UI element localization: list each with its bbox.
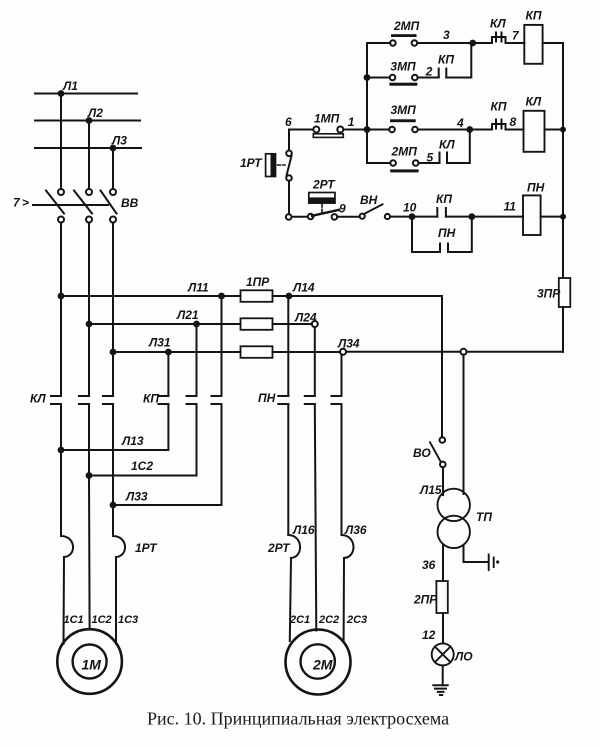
wire phase1 to heater: [60, 450, 62, 536]
node L33: [110, 502, 117, 509]
right rail: [562, 43, 564, 278]
node L31: [110, 349, 117, 356]
wire row L11: [61, 295, 241, 297]
wire row A to node3: [417, 42, 473, 44]
svg-text:2С3: 2С3: [346, 614, 367, 626]
svg-text:2ПР: 2ПР: [413, 593, 438, 607]
svg-text:КП: КП: [438, 53, 454, 67]
thermal contact 2RT blade: [312, 210, 339, 216]
node L31-KP1: [165, 349, 172, 356]
wire PN3 lower: [341, 404, 343, 535]
left rail to row E: [288, 181, 290, 214]
button 3MP row C bridge: [390, 119, 416, 122]
heater 1RT element a: [61, 536, 73, 557]
right rail lower: [562, 307, 564, 352]
wire to motor 2M b: [343, 558, 345, 641]
break contact KP ticks: [496, 120, 502, 129]
chassis ground dot: [496, 560, 499, 563]
contact KP-3: [212, 396, 222, 404]
button 2MP row D bridge: [390, 169, 418, 172]
switch BB pole2 bottom terminal: [86, 217, 92, 223]
svg-text:КЛ: КЛ: [30, 392, 46, 406]
svg-text:Л11: Л11: [187, 281, 209, 295]
wire row E top path: [412, 216, 437, 218]
wire L34 to right rail: [346, 351, 461, 353]
switch BB pole1 top terminal: [58, 189, 64, 195]
svg-text:2РТ: 2РТ: [312, 178, 336, 192]
phase line L2: [35, 120, 140, 122]
svg-text:3: 3: [443, 28, 450, 42]
wire row E c: [390, 216, 412, 218]
button 2MP row D left terminal: [390, 160, 396, 166]
button 3MP row C left terminal: [389, 127, 395, 133]
wire to motor 1M b: [115, 557, 117, 644]
phase line L1: [35, 93, 137, 95]
svg-text:12: 12: [422, 628, 436, 642]
break contact KP rowC: [470, 124, 524, 130]
switch BB pole3 blade: [101, 191, 117, 214]
switch VN blade: [365, 204, 383, 213]
button 1MP right terminal: [337, 127, 343, 133]
wire node11 to coil: [472, 216, 523, 218]
wire L34 tap down to transformer: [463, 355, 465, 494]
wire to motor 1M a: [63, 557, 66, 644]
node L11: [58, 293, 65, 300]
svg-text:ЛО: ЛО: [454, 650, 473, 664]
node on L1: [58, 90, 65, 97]
svg-text:1РТ: 1РТ: [240, 156, 263, 170]
wire L2 down to switch: [88, 121, 90, 190]
coil PN: [523, 195, 541, 235]
svg-text:2М: 2М: [312, 657, 333, 673]
svg-text:>: >: [22, 196, 29, 210]
wire row E top path right: [446, 216, 472, 218]
svg-text:7: 7: [512, 29, 520, 43]
wire L14 down to VO: [441, 296, 443, 437]
svg-text:Рис. 10. Принципиальная электр: Рис. 10. Принципиальная электросхема: [147, 709, 449, 729]
link 1С2: [89, 404, 197, 476]
wire row B right: [446, 43, 471, 78]
wire lamp to ground: [442, 665, 444, 685]
switch VN right terminal: [385, 214, 390, 219]
phase line L3: [35, 147, 141, 149]
svg-text:Л13: Л13: [121, 434, 144, 448]
button 2MP row A bridge: [391, 34, 417, 37]
motor 1M inner: [73, 645, 107, 679]
wire fuse to lamp: [442, 613, 444, 644]
thermal contact 2RT left terminal: [308, 214, 314, 220]
fuse 1PR-1: [241, 290, 273, 302]
wire row B left: [367, 77, 390, 79]
wire L1 down to switch: [60, 94, 62, 190]
svg-text:10: 10: [403, 201, 417, 215]
branch riser left: [366, 43, 368, 163]
node on L3: [110, 145, 117, 152]
contact KP-1: [158, 396, 168, 404]
wire row D right: [447, 130, 470, 164]
wire pole1 down: [60, 223, 62, 396]
terminal circle L24: [312, 321, 318, 327]
node 4: [466, 126, 473, 133]
node rail rowE: [560, 214, 566, 220]
thermal contact 2RT right terminal: [332, 214, 338, 220]
break contact KL ticks: [496, 33, 502, 42]
node rowB-left: [364, 74, 371, 81]
svg-text:Л33: Л33: [125, 490, 148, 504]
node on L2: [86, 117, 93, 124]
node L13: [58, 447, 65, 454]
wire coil KL to rail: [545, 129, 564, 131]
heater 2RT element a: [288, 535, 300, 558]
wire row E a: [292, 216, 308, 218]
node 11: [468, 213, 475, 220]
svg-text:1МП: 1МП: [314, 112, 340, 126]
wire L3 down to switch: [112, 148, 114, 189]
node L14: [286, 293, 293, 300]
node 3: [469, 40, 476, 47]
wire row D left: [367, 162, 390, 164]
contact KP-2: [187, 396, 197, 404]
fuse 1PR-3: [241, 346, 273, 358]
svg-text:ВО: ВО: [413, 446, 431, 460]
svg-text:Л36: Л36: [344, 523, 367, 537]
lamp LO cross: [435, 647, 451, 663]
button 2MP row A left terminal: [390, 40, 396, 46]
wire KL3 lower: [112, 404, 114, 505]
wire row C to node4: [418, 129, 470, 131]
wire PN1 lower: [287, 404, 289, 535]
svg-text:Л21: Л21: [176, 308, 199, 322]
wire VO to transformer: [442, 467, 444, 495]
contact KL-3: [103, 396, 113, 404]
wire phase3 to heater: [112, 505, 114, 536]
svg-text:ПН: ПН: [258, 391, 276, 405]
link Л13: [61, 404, 168, 450]
wire coil KP to rail: [543, 42, 563, 44]
switch BB pole1 bottom terminal: [58, 217, 64, 223]
heater 1RT box fill: [271, 154, 276, 177]
wire L34 row: [273, 351, 341, 353]
switch VO top terminal: [440, 437, 446, 443]
svg-text:ТП: ТП: [476, 510, 492, 524]
node 1: [364, 126, 371, 133]
svg-text:2: 2: [425, 65, 433, 79]
aux contact KL rowD: [440, 153, 448, 164]
button 3MP row B bridge: [389, 83, 417, 86]
svg-text:КЛ: КЛ: [439, 138, 455, 152]
contactor KP upper wires: [168, 296, 221, 396]
svg-text:КП: КП: [526, 9, 542, 23]
contact KL-2: [79, 396, 89, 404]
wire coil PN to rail: [541, 216, 563, 218]
loop PN lower path: [412, 217, 472, 252]
transformer TP primary: [438, 489, 470, 521]
chassis ground symbol: [489, 555, 494, 571]
motor 1M outer: [57, 629, 122, 694]
lamp LO circle: [432, 643, 454, 665]
svg-text:Л34: Л34: [337, 337, 360, 351]
svg-text:4: 4: [456, 116, 464, 130]
svg-text:2С1: 2С1: [289, 614, 310, 626]
svg-text:1С2: 1С2: [131, 459, 153, 473]
contact PN-1: [278, 396, 288, 404]
svg-text:КЛ: КЛ: [526, 95, 542, 109]
svg-text:1ПР: 1ПР: [246, 275, 270, 289]
svg-text:КП: КП: [491, 100, 507, 114]
svg-text:ВН: ВН: [360, 193, 378, 207]
svg-text:1РТ: 1РТ: [135, 541, 158, 555]
svg-text:6: 6: [285, 115, 292, 129]
button 1MP bridge: [313, 134, 343, 138]
wire row E b: [337, 216, 360, 218]
switch VO bottom terminal: [440, 462, 446, 468]
dash link 1RT: [278, 164, 286, 166]
wire secondary right to ground: [464, 546, 488, 563]
wire row B mid: [418, 77, 439, 79]
button 2MP row D right terminal: [413, 160, 419, 166]
fuse 2PR: [436, 581, 447, 613]
node rail rowC: [560, 127, 566, 133]
svg-text:2МП: 2МП: [391, 145, 418, 159]
wire L14 row: [273, 295, 443, 297]
corner terminal circle row E: [286, 214, 292, 220]
terminal circle on L34 at transformer tap: [461, 349, 467, 355]
wire row A left: [367, 42, 390, 44]
svg-text:КЛ: КЛ: [490, 17, 506, 31]
button 3MP row B right terminal: [412, 75, 418, 81]
svg-text:1: 1: [348, 115, 355, 129]
thermal contact 1RT bottom terminal: [286, 175, 292, 181]
contact PN-3: [332, 396, 342, 404]
svg-text:Л14: Л14: [292, 281, 315, 295]
terminal circle L34: [340, 349, 346, 355]
svg-text:Л31: Л31: [148, 336, 171, 350]
svg-text:КП: КП: [436, 192, 452, 206]
contactor PN upper wires: [288, 296, 341, 396]
heater 2RT box fill: [309, 197, 335, 203]
svg-text:1С1: 1С1: [64, 614, 84, 626]
wire 1MP to node1: [343, 129, 367, 131]
aux contact PN rowE: [440, 244, 448, 253]
wire row C node1 to 3MP: [367, 129, 389, 131]
wire to motor 2M a: [290, 558, 291, 641]
earth ground symbol: [433, 685, 447, 695]
svg-text:2С2: 2С2: [318, 614, 339, 626]
wire row L31: [113, 351, 241, 353]
heater 1RT box: [266, 154, 276, 177]
aux contact KP rowE: [437, 208, 446, 217]
svg-text:1С2: 1С2: [92, 614, 112, 626]
switch BB pole2 blade: [74, 191, 92, 214]
coil KL: [524, 111, 545, 152]
button 3MP row B left terminal: [390, 75, 396, 81]
svg-text:7: 7: [13, 196, 21, 210]
motor 2M inner: [301, 644, 335, 678]
wire row D mid: [419, 162, 440, 164]
wire pole2 down: [88, 223, 90, 396]
aux contact KP rowB: [439, 69, 447, 78]
coil KP: [524, 25, 542, 64]
heater 2RT element b: [342, 535, 354, 558]
switch VN left terminal: [360, 214, 365, 219]
svg-text:3МП: 3МП: [391, 103, 417, 117]
dash link 2RT: [321, 205, 323, 213]
switch BB tie bar: [33, 204, 108, 206]
wire L24 row: [273, 323, 312, 325]
contact PN-2: [305, 396, 315, 404]
svg-text:Л16: Л16: [292, 523, 315, 537]
wire secondary left down: [442, 545, 444, 581]
node 1C2: [86, 472, 93, 479]
svg-text:Л15: Л15: [419, 483, 442, 497]
switch VO blade: [430, 442, 440, 461]
switch BB pole3 top terminal: [110, 189, 116, 195]
fuse 3PR: [559, 278, 571, 307]
svg-text:ПН: ПН: [438, 226, 456, 240]
svg-text:36: 36: [422, 558, 436, 572]
wire L34 rail end: [467, 351, 564, 353]
svg-text:8: 8: [510, 115, 517, 129]
switch BB pole2 top terminal: [86, 189, 92, 195]
button 3MP row C right terminal: [412, 127, 418, 133]
wire pole3 down: [112, 223, 114, 396]
contact KL-1: [51, 396, 61, 404]
wire PN2 lower: [315, 404, 317, 631]
switch BB pole3 bottom terminal: [110, 217, 116, 223]
node L11-KP3: [218, 293, 225, 300]
node L21-KP2: [193, 321, 200, 328]
link Л33: [113, 404, 222, 505]
wire row C left: [289, 129, 313, 131]
switch BB pole1 blade: [46, 191, 64, 214]
svg-text:КП: КП: [143, 392, 159, 406]
svg-text:11: 11: [504, 200, 517, 214]
svg-text:2МП: 2МП: [393, 19, 420, 33]
left rail down from 6: [288, 130, 290, 151]
node L21: [86, 321, 93, 328]
button 2MP row A right terminal: [412, 40, 418, 46]
heater 2RT box: [309, 193, 335, 204]
svg-text:Л1: Л1: [62, 79, 78, 93]
thermal contact 1RT top terminal: [286, 151, 292, 157]
thermal contact 1RT blade: [287, 156, 292, 176]
svg-text:3МП: 3МП: [390, 60, 416, 74]
button 1MP left terminal: [313, 127, 319, 133]
transformer TP secondary: [438, 516, 470, 548]
motor 2M outer: [286, 630, 351, 695]
node 10: [409, 213, 416, 220]
svg-text:2РТ: 2РТ: [267, 541, 291, 555]
svg-text:ВВ: ВВ: [121, 196, 139, 210]
wire phase2 to motor: [88, 476, 91, 630]
svg-text:3ПР: 3ПР: [537, 287, 561, 301]
svg-text:9: 9: [339, 202, 346, 216]
svg-text:1М: 1М: [82, 657, 102, 673]
fuse 1PR-2: [241, 318, 273, 330]
svg-text:ПН: ПН: [527, 181, 545, 195]
wire KL2 lower: [88, 404, 90, 476]
break contact KL rowA: [473, 37, 525, 43]
wire KL1 lower: [60, 404, 62, 450]
heater 1RT element b: [113, 536, 125, 557]
svg-text:1С3: 1С3: [118, 614, 138, 626]
wire row L21: [89, 323, 241, 325]
